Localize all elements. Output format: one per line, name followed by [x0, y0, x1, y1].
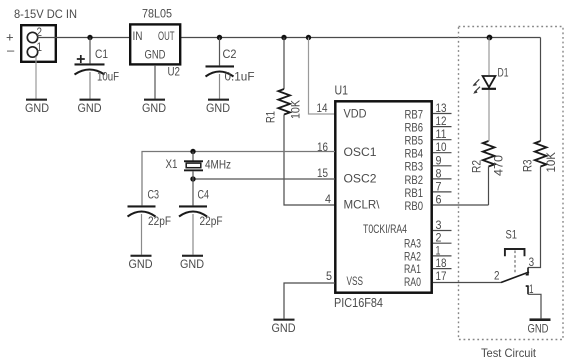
wire RA0 to S1	[433, 282, 501, 284]
svg-text:Test Circuit: Test Circuit	[481, 346, 537, 360]
svg-text:OUT: OUT	[158, 29, 175, 43]
svg-text:GND: GND	[180, 257, 204, 271]
wire R1 to MCLR	[284, 115, 335, 206]
wire S1 pin1 to ground	[528, 294, 541, 318]
crystal X1	[166, 152, 232, 180]
svg-text:78L05: 78L05	[142, 7, 172, 21]
svg-text:RB3: RB3	[405, 160, 424, 174]
svg-text:C4: C4	[198, 188, 210, 202]
test circuit boundary	[459, 27, 564, 340]
svg-text:OSC2: OSC2	[344, 172, 377, 186]
svg-text:RB1: RB1	[405, 186, 424, 200]
led D1	[472, 38, 508, 142]
wire OSC1	[142, 152, 335, 206]
svg-text:MCLR\: MCLR\	[344, 198, 381, 212]
wire RB0 to R2	[433, 204, 489, 206]
wire VSS	[284, 283, 335, 319]
svg-text:13: 13	[436, 101, 447, 115]
svg-text:–: –	[7, 43, 15, 58]
capacitor C2	[206, 38, 255, 99]
svg-text:11: 11	[436, 127, 447, 141]
svg-text:RA0: RA0	[404, 275, 421, 289]
svg-text:GND: GND	[272, 321, 296, 335]
connector J1	[6, 25, 56, 62]
svg-text:1: 1	[37, 40, 43, 54]
svg-text:GND: GND	[206, 101, 230, 115]
svg-text:GND: GND	[78, 101, 102, 115]
svg-text:R1: R1	[264, 111, 278, 123]
svg-text:10K: 10K	[289, 100, 303, 119]
wire power rail	[38, 37, 541, 39]
wire OSC2	[193, 178, 335, 180]
svg-text:U1: U1	[335, 83, 349, 98]
svg-text:14: 14	[317, 101, 328, 115]
svg-text:GND: GND	[145, 48, 166, 62]
ground U2	[142, 99, 166, 115]
svg-text:D1: D1	[498, 66, 509, 80]
svg-text:RB6: RB6	[405, 121, 424, 135]
svg-text:VDD: VDD	[344, 107, 367, 121]
svg-text:8-15V DC IN: 8-15V DC IN	[14, 7, 77, 21]
svg-text:RB4: RB4	[405, 147, 424, 161]
svg-text:R2: R2	[470, 160, 484, 173]
node rail-R1	[281, 35, 286, 40]
svg-text:3: 3	[529, 255, 535, 269]
svg-text:12: 12	[436, 114, 447, 128]
svg-text:10K: 10K	[544, 152, 558, 173]
svg-text:RB5: RB5	[405, 134, 424, 148]
ground C3	[129, 255, 153, 271]
svg-text:0.1uF: 0.1uF	[225, 70, 255, 84]
svg-text:22pF: 22pF	[200, 214, 223, 228]
svg-text:OSC1: OSC1	[344, 145, 377, 159]
svg-text:VSS: VSS	[347, 274, 364, 288]
svg-text:RB7: RB7	[405, 107, 424, 121]
capacitor C1	[75, 38, 120, 99]
resistor R1	[264, 38, 303, 124]
node OSC2-X1	[190, 176, 195, 181]
ground C1	[78, 99, 102, 115]
capacitor C3	[128, 188, 172, 255]
svg-text:7: 7	[436, 179, 442, 193]
svg-text:RB0: RB0	[405, 199, 424, 213]
svg-text:RB2: RB2	[405, 173, 424, 187]
svg-text:5: 5	[326, 269, 332, 283]
svg-text:GND: GND	[528, 322, 549, 336]
right pin stubs RB7-RB1	[433, 114, 452, 192]
capacitor C4	[179, 179, 223, 255]
svg-text:10: 10	[436, 140, 447, 154]
svg-text:S1: S1	[506, 228, 518, 242]
svg-text:8: 8	[436, 166, 442, 180]
right pin stubs RA4-RA1	[433, 231, 452, 269]
ground connector	[25, 99, 49, 115]
svg-text:10uF: 10uF	[97, 70, 119, 84]
svg-text:GND: GND	[25, 101, 49, 115]
svg-text:9: 9	[436, 153, 442, 167]
node rail-D1	[487, 35, 493, 41]
svg-text:T0CKI/RA4: T0CKI/RA4	[363, 222, 407, 236]
svg-text:U2: U2	[168, 65, 181, 79]
node rail-VDD	[306, 35, 311, 40]
switch S1	[494, 228, 534, 297]
resistor R3	[521, 38, 559, 268]
wire connector pin1 to ground	[35, 57, 37, 99]
regulator U2	[130, 24, 180, 78]
svg-text:C2: C2	[223, 47, 237, 61]
svg-text:GND: GND	[142, 101, 166, 115]
svg-text:IN: IN	[133, 29, 143, 43]
ground C2	[206, 99, 230, 115]
node rail-C2	[217, 35, 222, 40]
svg-text:4MHz: 4MHz	[205, 158, 231, 172]
resistor R2	[470, 141, 506, 205]
wire U2 gnd	[154, 65, 156, 99]
svg-text:X1: X1	[166, 157, 178, 171]
svg-text:PIC16F84: PIC16F84	[334, 295, 383, 310]
node OSC1-X1	[190, 149, 195, 154]
svg-text:GND: GND	[129, 257, 153, 271]
wire VDD	[309, 38, 336, 115]
ground C4	[180, 255, 204, 271]
svg-text:15: 15	[317, 166, 328, 180]
node rail-C1	[87, 35, 92, 40]
ground VSS	[272, 319, 296, 335]
IC U1 PIC16F84	[335, 101, 431, 292]
svg-text:C3: C3	[148, 188, 160, 202]
svg-text:22pF: 22pF	[148, 214, 171, 228]
svg-text:470: 470	[492, 155, 506, 176]
svg-text:C1: C1	[95, 47, 108, 61]
svg-text:R3: R3	[521, 159, 535, 172]
svg-text:6: 6	[436, 193, 442, 207]
svg-text:2: 2	[494, 269, 500, 283]
svg-text:4: 4	[325, 192, 331, 206]
ground S1	[528, 318, 551, 335]
svg-text:17: 17	[436, 269, 447, 283]
